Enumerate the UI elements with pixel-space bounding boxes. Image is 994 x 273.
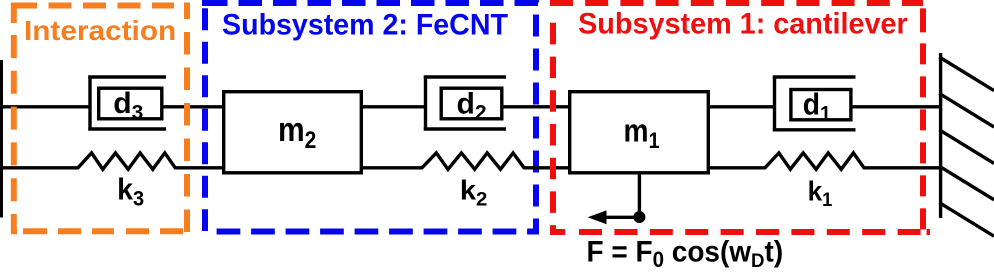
- spring k2 with lead wires (bottom rail, mass m2 to mass m1): [362, 153, 570, 169]
- label k2: [460, 175, 487, 210]
- label F = F0 cos(wDt): [587, 236, 784, 273]
- title Subsystem 1: cantilever: [578, 7, 908, 41]
- damper d1: [773, 76, 856, 131]
- force arrow F on mass m1: [588, 174, 646, 224]
- title Subsystem 2: FeCNT: [222, 9, 508, 41]
- dashed box: Interaction (orange): [11, 3, 190, 234]
- wire: mass m2 to damper d2 (top rail): [362, 105, 426, 108]
- wire: damper d2 to mass m1 (top rail): [503, 105, 570, 108]
- label k1: [808, 176, 833, 212]
- svg-text:Subsystem 2: FeCNT: Subsystem 2: FeCNT: [222, 9, 508, 41]
- dashed box: Subsystem 2 (blue): [202, 0, 539, 232]
- title Interaction: [24, 16, 176, 47]
- left wall bar: [0, 60, 3, 218]
- label k3: [117, 173, 144, 211]
- dashed box: Subsystem 1 (red): [550, 0, 930, 235]
- svg-text:Interaction: Interaction: [24, 16, 176, 47]
- wire: left wall to damper d3 (top rail): [0, 105, 90, 108]
- damper d3: [88, 76, 166, 131]
- spring k1 with lead wires (bottom rail, mass m1 to right wall): [708, 153, 941, 169]
- wire: damper d3 to mass m2 (top rail): [163, 105, 224, 108]
- mass m1: [570, 92, 709, 173]
- svg-text:Subsystem 1: cantilever: Subsystem 1: cantilever: [578, 7, 908, 41]
- wire: damper d1 to right wall (top rail): [852, 105, 941, 108]
- right wall: [939, 53, 994, 236]
- spring k3 with lead wires (bottom rail, left wall to mass m2): [0, 153, 224, 169]
- damper d2: [424, 76, 506, 131]
- wire: mass m1 to damper d1 (top rail): [708, 105, 776, 108]
- mass m2: [224, 92, 362, 173]
